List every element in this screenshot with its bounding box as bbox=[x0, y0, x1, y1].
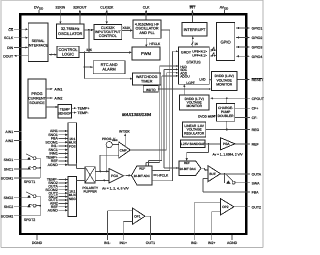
svg-text:PGA: PGA bbox=[111, 174, 119, 178]
svg-text:GPIO2: GPIO2 bbox=[252, 36, 263, 40]
svg-text:HFCLK: HFCLK bbox=[149, 42, 161, 46]
svg-text:INTERRUPT: INTERRUPT bbox=[184, 28, 206, 32]
svg-text:X32K: X32K bbox=[122, 26, 131, 30]
svg-text:INTERFACE: INTERFACE bbox=[28, 44, 49, 48]
svg-text:DD: DD bbox=[224, 7, 228, 11]
svg-text:DOUT: DOUT bbox=[3, 54, 14, 58]
svg-text:SCOM1: SCOM1 bbox=[1, 177, 14, 181]
svg-text:AIN1: AIN1 bbox=[5, 130, 13, 134]
svg-text:SCLK: SCLK bbox=[4, 36, 14, 40]
svg-text:CF-: CF- bbox=[252, 116, 259, 120]
svg-text:NEG: NEG bbox=[69, 197, 76, 201]
svg-text:HFCLK: HFCLK bbox=[157, 173, 169, 177]
svg-text:GPIO4: GPIO4 bbox=[252, 55, 263, 59]
svg-text:OUT2: OUT2 bbox=[252, 205, 261, 209]
svg-text:GPIO1: GPIO1 bbox=[252, 27, 263, 31]
svg-text:STATUS: STATUS bbox=[186, 60, 201, 64]
svg-text:ALARM: ALARM bbox=[102, 66, 115, 71]
svg-text:AIN1: AIN1 bbox=[54, 87, 62, 91]
svg-text:AND PLL: AND PLL bbox=[139, 31, 154, 35]
svg-text:SNO2: SNO2 bbox=[4, 196, 14, 200]
svg-text:SNC1: SNC1 bbox=[4, 168, 13, 172]
svg-text:CF+: CF+ bbox=[252, 107, 259, 111]
svg-text:UPF<4:1>: UPF<4:1> bbox=[192, 54, 207, 58]
svg-text:SWA: SWA bbox=[252, 181, 261, 185]
svg-text:32KOUT: 32KOUT bbox=[73, 5, 87, 9]
svg-text:REF: REF bbox=[139, 167, 145, 171]
svg-text:OP1: OP1 bbox=[134, 215, 141, 219]
svg-text:TIMER: TIMER bbox=[141, 79, 153, 83]
svg-text:WDTO: WDTO bbox=[146, 88, 156, 92]
svg-text:AIN2: AIN2 bbox=[5, 139, 13, 143]
svg-text:PGA: PGA bbox=[223, 142, 231, 146]
svg-text:PWM: PWM bbox=[141, 51, 152, 56]
svg-text:1.25V BANDGAP: 1.25V BANDGAP bbox=[180, 142, 205, 146]
svg-text:SPDT1: SPDT1 bbox=[24, 180, 36, 184]
svg-text:AGND: AGND bbox=[48, 163, 59, 167]
svg-text:REGULATOR: REGULATOR bbox=[184, 131, 205, 135]
svg-text:IN1-: IN1- bbox=[104, 241, 111, 245]
svg-text:MONITOR: MONITOR bbox=[216, 83, 232, 87]
svg-text:SNC2: SNC2 bbox=[4, 205, 13, 209]
svg-text:DGND: DGND bbox=[32, 241, 43, 245]
svg-text:16-BIT DAC: 16-BIT DAC bbox=[179, 167, 196, 171]
svg-text:AGND: AGND bbox=[48, 208, 59, 212]
svg-text:16: 16 bbox=[194, 42, 198, 46]
svg-text:SOURCE: SOURCE bbox=[29, 101, 45, 105]
svg-text:LCPF: LCPF bbox=[186, 81, 194, 85]
svg-text:AGND: AGND bbox=[227, 241, 238, 245]
svg-text:4: 4 bbox=[213, 46, 215, 50]
svg-text:CLK32K: CLK32K bbox=[100, 5, 114, 9]
svg-text:CLK: CLK bbox=[143, 5, 150, 9]
svg-text:CONTROL: CONTROL bbox=[99, 34, 117, 38]
svg-text:TEMP-: TEMP- bbox=[77, 111, 89, 115]
svg-text:FBA: FBA bbox=[252, 191, 259, 195]
svg-text:BUF: BUF bbox=[209, 172, 215, 176]
svg-text:IN2+: IN2+ bbox=[208, 241, 216, 245]
svg-text:DD: DD bbox=[39, 7, 43, 11]
svg-text:MAX1393/1394: MAX1393/1394 bbox=[122, 112, 152, 117]
svg-text:SENSOR: SENSOR bbox=[58, 112, 73, 116]
svg-text:REG: REG bbox=[252, 128, 260, 132]
svg-text:IN2-: IN2- bbox=[191, 241, 198, 245]
svg-text:BIAS: BIAS bbox=[112, 139, 118, 142]
svg-text:REF: REF bbox=[252, 143, 259, 147]
svg-text:PROG: PROG bbox=[31, 92, 42, 96]
svg-text:DOUBLER: DOUBLER bbox=[218, 114, 235, 118]
svg-text:32KIN: 32KIN bbox=[55, 5, 65, 9]
svg-text:SNO1: SNO1 bbox=[4, 158, 14, 162]
svg-text:ADOU: ADOU bbox=[180, 75, 190, 79]
svg-text:4: 4 bbox=[213, 52, 215, 56]
svg-text:OUT1: OUT1 bbox=[146, 241, 155, 245]
svg-text:TEMP+: TEMP+ bbox=[77, 107, 89, 111]
svg-text:CMP: CMP bbox=[120, 148, 127, 152]
svg-text:INT32K: INT32K bbox=[119, 129, 131, 133]
svg-text:DVDD MUX: DVDD MUX bbox=[198, 114, 215, 118]
svg-text:CPOUT: CPOUT bbox=[252, 97, 265, 101]
svg-text:32K: 32K bbox=[86, 48, 93, 52]
svg-text:LVD: LVD bbox=[199, 78, 206, 82]
svg-text:SPDT2: SPDT2 bbox=[24, 218, 36, 222]
svg-text:MONITOR: MONITOR bbox=[186, 104, 202, 108]
svg-text:OP2: OP2 bbox=[222, 205, 229, 209]
svg-text:SERIAL: SERIAL bbox=[32, 39, 45, 43]
svg-text:REF: REF bbox=[184, 161, 190, 165]
svg-text:FLIPPER: FLIPPER bbox=[84, 190, 98, 194]
svg-text:OSCILLATOR: OSCILLATOR bbox=[58, 31, 82, 36]
svg-text:SCOM2: SCOM2 bbox=[1, 214, 14, 218]
svg-text:GPIO3: GPIO3 bbox=[252, 46, 263, 50]
svg-text:Av = 1, 1.6384, 2 V/V: Av = 1, 1.6384, 2 V/V bbox=[213, 153, 244, 157]
svg-text:16-BIT ADC: 16-BIT ADC bbox=[134, 174, 151, 178]
svg-text:POS: POS bbox=[69, 144, 76, 148]
svg-text:GRDY: GRDY bbox=[181, 51, 192, 55]
svg-text:AIN2: AIN2 bbox=[54, 97, 62, 101]
svg-text:OUTA: OUTA bbox=[252, 173, 262, 177]
svg-text:Av = 1, 2, 4, 8 V/V: Av = 1, 2, 4, 8 V/V bbox=[102, 186, 129, 190]
svg-text:DIN: DIN bbox=[7, 46, 14, 50]
svg-text:IN1+: IN1+ bbox=[120, 241, 128, 245]
svg-text:CURRENT: CURRENT bbox=[28, 96, 46, 100]
svg-text:LOGIC: LOGIC bbox=[62, 51, 74, 56]
svg-text:GPIO: GPIO bbox=[220, 40, 230, 45]
